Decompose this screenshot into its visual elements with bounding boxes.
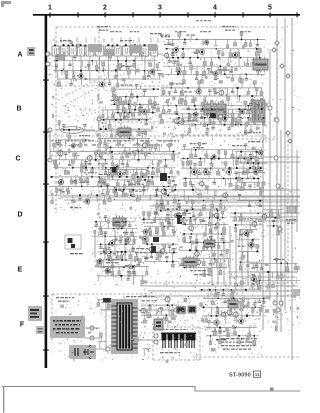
wire (254, 182, 256, 188)
wire (215, 190, 217, 197)
resistor R75 (260, 88, 263, 95)
resistor R125 (168, 143, 171, 151)
capacitor C180 (83, 125, 86, 130)
wire junction (105, 147, 106, 148)
wire net W3 (57, 78, 160, 80)
wire junction (166, 48, 168, 50)
section boundary dashed line (56, 26, 277, 28)
resistor R291 (209, 209, 212, 218)
capacitor C147 (194, 218, 197, 225)
capacitor C101 (244, 144, 247, 150)
resistor R83 (162, 106, 165, 114)
capacitor C130 (114, 236, 117, 241)
wire (124, 79, 126, 85)
wire (57, 71, 59, 80)
capacitor C163 (202, 218, 205, 222)
resistor R21 (112, 88, 115, 97)
wire junction (217, 217, 219, 219)
wire (116, 348, 122, 350)
wire (129, 37, 131, 43)
wire (105, 125, 107, 129)
part label text (84, 172, 97, 173)
svg-text:2: 2 (103, 5, 107, 12)
part label text (85, 140, 96, 141)
wire (252, 150, 254, 160)
part label text (123, 232, 136, 233)
part label text (221, 338, 257, 339)
resistor R106 (138, 110, 141, 116)
part label text (106, 259, 120, 260)
wire junction (256, 151, 258, 153)
resistor R178 (231, 109, 234, 117)
resistor R40 (244, 39, 247, 46)
resistor R269 (158, 253, 161, 262)
resistor R99 (248, 114, 251, 121)
wire (133, 236, 135, 244)
grid tick (43, 242, 49, 243)
wire net W80 (233, 212, 262, 214)
wire net W16 (159, 113, 263, 115)
wire net W78 (233, 188, 262, 190)
svg-text:ST-9090: ST-9090 (229, 373, 251, 379)
wire (268, 212, 270, 217)
resistor R52 (227, 58, 230, 67)
resistor R359 (259, 307, 262, 316)
wire (235, 152, 237, 160)
wire junction (177, 73, 179, 75)
section boundary dashed line (152, 327, 154, 360)
resistor R228 (177, 200, 180, 207)
tuning gang linkage dashed diagonal (97, 110, 133, 142)
wire net W51 (145, 243, 178, 245)
wire (246, 252, 248, 263)
resistor R177 (220, 101, 223, 109)
capacitor C54 (136, 147, 139, 152)
resistor R110 (131, 112, 134, 120)
resistor R202 (189, 161, 192, 169)
resistor R65 (231, 74, 234, 81)
wire junction (117, 112, 119, 114)
resistor R242 (120, 236, 123, 244)
wire junction (172, 261, 174, 263)
resistor R91 (220, 106, 222, 115)
wire (140, 285, 298, 287)
resistor R238 (94, 230, 96, 236)
resistor R193 (198, 142, 201, 149)
resistor R51 (217, 51, 220, 58)
resistor R321 (111, 267, 114, 277)
wire junction (126, 176, 128, 178)
svg-text:4: 4 (213, 5, 217, 12)
part label text (193, 147, 204, 148)
resistor R370 (253, 336, 256, 345)
resistor R129 (81, 160, 84, 167)
wire (205, 224, 207, 233)
resistor R150 (91, 169, 94, 177)
resistor R55 (173, 60, 176, 66)
wire net W85 (102, 309, 134, 311)
resistor R96 (181, 114, 184, 123)
capacitor C38 (261, 96, 264, 103)
transistor Q1 (77, 72, 83, 79)
wire junction (151, 176, 153, 178)
wire (226, 93, 228, 96)
transistor Q59 (231, 311, 238, 319)
resistor R165 (56, 188, 59, 195)
capacitor C8 (70, 79, 73, 85)
transistor Q7 (175, 68, 181, 75)
resistor R365 (209, 336, 211, 345)
resistor R305 (277, 210, 280, 219)
transistor Q55 (139, 307, 146, 315)
wire junction (211, 315, 213, 317)
resistor R108 (119, 113, 121, 120)
wire junction (133, 60, 134, 61)
wire junction (103, 266, 104, 267)
long interconnect wire (60, 196, 300, 198)
capacitor C66 (125, 168, 128, 173)
resistor R28 (117, 97, 120, 105)
connector node J11 (278, 227, 282, 231)
resistor R243 (132, 244, 134, 251)
wire junction (172, 243, 173, 244)
part label text (180, 91, 192, 92)
resistor R64 (223, 68, 226, 75)
resistor R226 (156, 200, 159, 208)
transistor Q23 (116, 170, 123, 178)
wire junction (129, 112, 131, 114)
wire (75, 125, 77, 129)
resistor R2 (95, 61, 98, 70)
wire net W66 (263, 209, 283, 211)
wire junction (100, 244, 102, 246)
capacitor C58 (64, 153, 67, 160)
wire net W20 (98, 137, 150, 139)
wire junction (149, 314, 151, 316)
filter capacitor C184 (162, 333, 167, 348)
wire junction (250, 109, 251, 110)
transistor Q28 (210, 153, 216, 160)
wire junction (167, 304, 169, 306)
resistor R156 (168, 177, 171, 184)
wire junction (167, 208, 169, 210)
resistor R246 (121, 252, 123, 259)
wire (90, 192, 92, 195)
grid column label 2 (103, 5, 107, 12)
resistor R352 (232, 290, 235, 299)
wire junction (209, 117, 211, 119)
wire junction (96, 194, 98, 196)
dark component blob (112, 167, 117, 173)
capacitor C78 (142, 186, 145, 190)
wire net W76 (96, 266, 149, 268)
resistor R176 (215, 109, 218, 119)
resistor R268 (163, 244, 166, 253)
resistor R23 (125, 97, 127, 104)
svg-text:C: C (15, 156, 20, 163)
wire junction (143, 186, 145, 188)
resistor R167 (103, 195, 106, 204)
label WA-50 (70, 207, 81, 208)
capacitor C59 (68, 160, 71, 166)
wire (60, 140, 62, 148)
transistor Q21 (56, 149, 63, 157)
wire junction (240, 261, 241, 262)
wire (96, 152, 98, 158)
resistor R61 (183, 74, 186, 83)
wire junction (203, 200, 204, 201)
resistor R313 (259, 272, 261, 279)
part label text (100, 253, 116, 254)
resistor R220 (130, 180, 133, 187)
capacitor C132 (99, 244, 102, 248)
resistor R145 (151, 168, 154, 175)
wire (114, 230, 116, 256)
capacitor C7 (147, 71, 150, 77)
part label text (116, 144, 125, 145)
wire (235, 161, 300, 163)
resistor R67 (257, 67, 260, 74)
transistor Q51 (247, 241, 254, 249)
capacitor C28 (234, 66, 237, 70)
wire (175, 189, 300, 191)
capacitor C92 (223, 112, 226, 118)
capacitor C119 (178, 206, 181, 210)
resistor R122 (126, 152, 129, 158)
wire (100, 177, 102, 186)
section boundary dashed line (56, 85, 168, 87)
resistor R219 (123, 180, 126, 188)
wire junction (146, 243, 148, 245)
wire net W94 (98, 341, 106, 343)
wire junction (220, 65, 222, 67)
part label text (244, 132, 261, 133)
wire junction (176, 113, 178, 115)
wire (140, 85, 142, 89)
capacitor C179 (62, 125, 65, 130)
page corner registration arrow (1, 1, 11, 7)
capacitor C196 (216, 307, 219, 313)
resistor R13 (143, 71, 146, 80)
wire net W67 (266, 217, 279, 219)
resistor R249 (97, 260, 100, 266)
capacitor C162 (189, 218, 192, 223)
resistor R225 (198, 190, 201, 198)
resistor R336 (97, 300, 100, 307)
wire junction (223, 242, 224, 243)
wire net W11 (163, 65, 263, 67)
resistor R5 (133, 61, 136, 67)
resistor R368 (238, 336, 241, 344)
part label text (164, 44, 173, 45)
wire junction (257, 251, 259, 253)
resistor R124 (154, 145, 157, 152)
wire bundle vertical (217, 218, 219, 285)
capacitor C31 (214, 74, 217, 79)
resistor R166 (66, 188, 69, 195)
capacitor C172 (252, 274, 255, 280)
resistor R251 (130, 260, 133, 269)
transistor Q49 (250, 220, 257, 228)
part label text (247, 109, 256, 110)
transistor Q3 (148, 68, 155, 76)
wire (96, 348, 106, 350)
wire junction (240, 124, 242, 126)
wire (220, 118, 222, 126)
capacitor C46 (145, 120, 148, 125)
wire (59, 152, 61, 161)
wire junction (130, 194, 132, 196)
wire junction (260, 167, 262, 169)
capacitor C72 (172, 177, 175, 182)
part label text (99, 174, 110, 175)
part label text (181, 220, 195, 221)
wire junction (244, 158, 246, 160)
svg-text:1: 1 (48, 5, 52, 12)
part label text (67, 140, 79, 141)
resistor R277 (205, 243, 208, 250)
resistor R68 (163, 88, 165, 94)
wire junction (151, 252, 153, 254)
resistor R43 (222, 49, 224, 56)
wire net W32 (180, 158, 263, 160)
wire junction (259, 57, 260, 58)
resistor R8 (65, 71, 68, 79)
wire (239, 230, 241, 241)
transistor Q38 (141, 235, 148, 243)
resistor R276 (217, 242, 219, 248)
wire junction (252, 239, 254, 241)
wire net W5 (111, 96, 158, 98)
capacitor C192 (216, 293, 219, 299)
resistor R115 (99, 141, 102, 148)
capacitor C141 (150, 253, 153, 258)
wire junction (139, 45, 141, 47)
grid row label F (20, 322, 25, 329)
wire (135, 181, 137, 187)
wire net W74 (251, 271, 298, 273)
bus wire (296, 150, 298, 232)
wire net W58 (179, 258, 232, 260)
resistor R39 (240, 32, 243, 39)
wire junction (136, 96, 138, 98)
resistor R250 (111, 260, 114, 268)
resistor R70 (180, 88, 183, 96)
resistor R312 (294, 263, 297, 270)
capacitor C47 (115, 129, 118, 134)
dark component blob (160, 173, 167, 181)
resistor R328 (234, 213, 237, 220)
resistor R221 (143, 173, 146, 180)
capacitor C62 (126, 160, 129, 167)
wire (197, 213, 199, 218)
wire (147, 349, 149, 352)
wire net W87 (141, 314, 177, 316)
resistor R120 (105, 145, 108, 152)
wire net W91 (202, 315, 260, 317)
wire net W49 (144, 226, 176, 228)
wire junction (108, 259, 109, 260)
part label text (120, 140, 130, 141)
resistor R81 (251, 96, 254, 104)
svg-text:F: F (20, 322, 25, 329)
wire junction (196, 39, 197, 40)
wire net W19 (99, 128, 152, 130)
connector node J20 (273, 301, 277, 305)
wire junction (184, 224, 186, 226)
wire net W90 (201, 306, 260, 308)
capacitor C176 (238, 194, 241, 200)
resistor R353 (240, 298, 243, 305)
scan texture (48, 24, 301, 360)
resistor R214 (102, 163, 105, 169)
wire (241, 213, 243, 225)
wire (225, 178, 227, 186)
wire (100, 309, 176, 311)
part label text (104, 140, 116, 141)
section boundary dashed line (99, 217, 152, 219)
wire (190, 168, 192, 177)
section boundary dashed line (175, 134, 246, 136)
wire junction (250, 158, 252, 160)
wire (133, 276, 135, 285)
resistor R103 (116, 101, 119, 110)
wire junction (56, 60, 58, 62)
wire junction (195, 124, 196, 125)
rectifier block (154, 319, 163, 330)
capacitor C170 (260, 263, 263, 269)
wire junction (190, 167, 192, 169)
wire junction (267, 271, 269, 273)
alignment point P5 (286, 131, 290, 135)
alignment point P2 (280, 64, 284, 68)
capacitor C106 (259, 168, 262, 172)
wire (139, 195, 141, 200)
wire net W6 (111, 103, 160, 105)
resistor R50 (210, 58, 213, 66)
resistor R316 (258, 281, 261, 289)
wire net W59 (182, 267, 227, 269)
transistor Q45 (194, 258, 201, 266)
wire junction (167, 194, 169, 196)
resistor R280 (202, 259, 205, 266)
tuned filter stage FL3 (70, 44, 77, 75)
resistor R134 (133, 151, 136, 159)
wire (115, 135, 117, 139)
capacitor C93 (246, 118, 249, 124)
long interconnect wire (64, 199, 298, 201)
wire net W89 (203, 297, 265, 299)
wire junction (235, 124, 236, 125)
resistor R93 (247, 106, 250, 114)
resistor R73 (247, 88, 249, 95)
wire junction (132, 266, 134, 268)
svg-text:D: D (17, 212, 22, 219)
wire junction (193, 113, 195, 115)
part label text (182, 120, 197, 121)
connector node J14 (106, 347, 110, 351)
resistor R77 (184, 96, 187, 105)
connector node J10 (276, 184, 280, 188)
capacitor C195 (262, 298, 265, 303)
resistor R209 (189, 178, 191, 185)
part label text (221, 342, 254, 343)
wire junction (118, 228, 119, 229)
resistor R362 (227, 328, 230, 337)
transistor Q10 (198, 48, 205, 56)
part label text (217, 69, 233, 70)
filter capacitor C187 (180, 333, 185, 348)
